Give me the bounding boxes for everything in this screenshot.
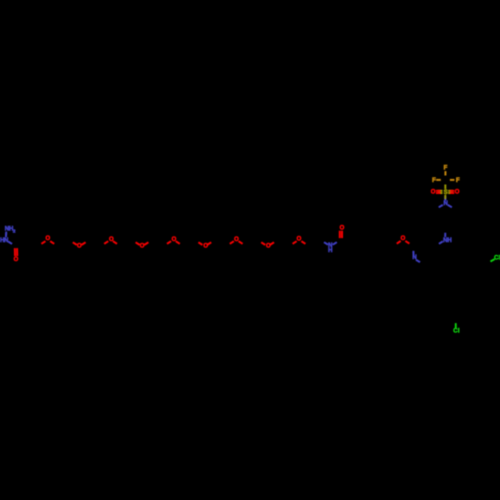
svg-text:O: O bbox=[431, 189, 436, 195]
svg-text:O: O bbox=[172, 237, 177, 243]
svg-text:O: O bbox=[455, 189, 460, 195]
svg-text:O: O bbox=[77, 243, 82, 249]
svg-text:N: N bbox=[444, 201, 448, 207]
svg-text:F: F bbox=[444, 166, 448, 172]
svg-text:S: S bbox=[444, 190, 448, 196]
svg-text:O: O bbox=[401, 236, 406, 242]
svg-text:O: O bbox=[297, 237, 302, 243]
svg-text:F: F bbox=[456, 178, 460, 184]
svg-text:F: F bbox=[432, 178, 436, 184]
svg-text:O: O bbox=[340, 225, 345, 231]
svg-text:O: O bbox=[203, 243, 208, 249]
svg-text:O: O bbox=[109, 237, 114, 243]
svg-text:O: O bbox=[266, 243, 271, 249]
svg-text:O: O bbox=[140, 243, 145, 249]
colored half-bonds of the skeletal structure (carbon halves are black on black) bbox=[5, 232, 7, 236]
svg-text:H: H bbox=[447, 238, 451, 244]
svg-text:N: N bbox=[412, 255, 416, 261]
svg-text:O: O bbox=[234, 237, 239, 243]
svg-text:2: 2 bbox=[13, 228, 16, 233]
svg-text:O: O bbox=[45, 236, 50, 242]
svg-text:N: N bbox=[4, 238, 8, 244]
svg-text:O: O bbox=[14, 257, 19, 263]
svg-text:H: H bbox=[328, 248, 332, 254]
